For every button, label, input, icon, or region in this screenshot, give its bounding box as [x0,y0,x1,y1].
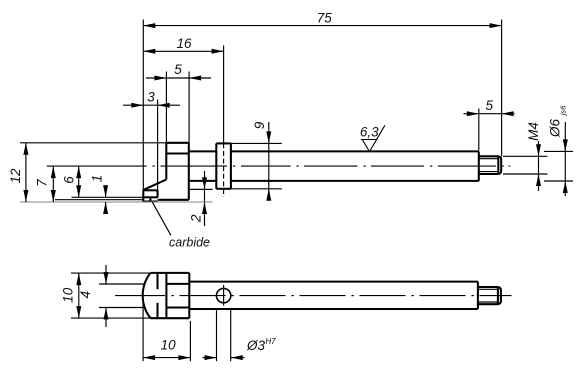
svg-text:6,3: 6,3 [360,125,379,140]
svg-text:5: 5 [174,62,182,77]
svg-text:carbide: carbide [169,236,210,250]
svg-text:js6: js6 [558,105,567,116]
svg-text:1: 1 [90,175,105,183]
svg-text:10: 10 [161,338,177,353]
svg-text:7: 7 [35,179,50,187]
svg-text:4: 4 [78,291,93,299]
svg-text:Ø3: Ø3 [246,338,266,353]
svg-text:2: 2 [189,214,204,223]
svg-text:10: 10 [60,287,75,303]
svg-text:3: 3 [147,90,155,105]
svg-text:75: 75 [317,11,333,26]
svg-text:Ø6: Ø6 [548,119,563,139]
svg-text:5: 5 [486,98,494,113]
svg-text:9: 9 [252,121,267,129]
svg-text:H7: H7 [265,337,276,346]
svg-text:M4: M4 [526,122,541,141]
svg-text:6: 6 [61,176,76,184]
svg-text:16: 16 [176,36,192,51]
svg-text:12: 12 [8,168,23,184]
